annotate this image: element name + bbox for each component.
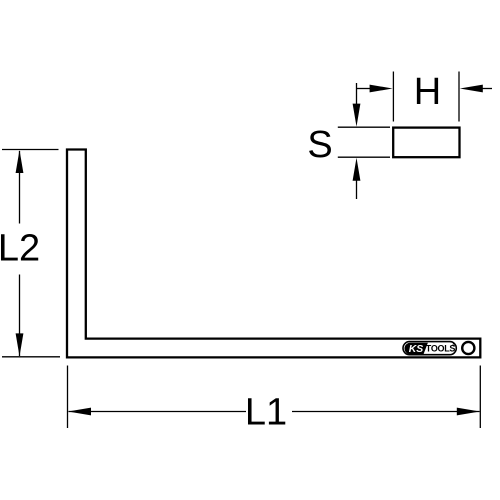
svg-text:S: S (307, 124, 332, 166)
dimension L2: top extension line (2, 149, 59, 151)
dimension L2: upper arrowhead (16, 150, 24, 173)
KS TOOLS logo capsule (403, 342, 456, 355)
svg-text:L2: L2 (0, 228, 40, 270)
dimension S: top extension line (338, 126, 390, 128)
dimension H: right arrowhead (pointing left) (460, 85, 483, 93)
dimension L1: right extension line (479, 366, 481, 429)
dimension S: lower leader line (356, 179, 358, 199)
dimension L2: dimension line lower segment (19, 275, 21, 357)
dimension S: bottom extension line (338, 156, 390, 158)
dimension L1: left extension line (67, 366, 69, 429)
dimension L2: dimension line upper segment (19, 151, 21, 224)
dimension L1: dimension line left segment (69, 411, 247, 413)
dimension H: left tail line (357, 88, 373, 90)
dimension S: lower arrowhead (pointing up) (353, 158, 361, 181)
dimension H: right tail line (482, 88, 492, 90)
KS TOOLS logo black blob (404, 343, 427, 355)
dimension L2: lower arrowhead (16, 333, 24, 356)
dimension L1: dimension line right segment (292, 411, 480, 413)
L-profile outline (angle bracket body) (67, 150, 480, 358)
dimension H: left extension line (392, 72, 394, 122)
dimension L2: bottom extension line (2, 356, 60, 358)
svg-text:KS: KS (409, 344, 424, 355)
dimension S: upper leader line (356, 83, 358, 106)
hole circle at arm end (462, 342, 474, 354)
logo registered mark (453, 344, 455, 346)
dimension L1: left arrowhead (68, 408, 91, 416)
dimension H: right extension line (458, 72, 460, 122)
svg-text:L1: L1 (245, 392, 287, 434)
cross-section rectangle (profile section for H and S) (393, 128, 459, 158)
dimension S: upper arrowhead (pointing down) (353, 104, 361, 127)
dimension L1: right arrowhead (457, 408, 480, 416)
dimension H: left arrowhead (pointing right) (370, 85, 393, 93)
svg-text:TOOLS: TOOLS (426, 343, 456, 353)
svg-text:H: H (414, 71, 441, 113)
